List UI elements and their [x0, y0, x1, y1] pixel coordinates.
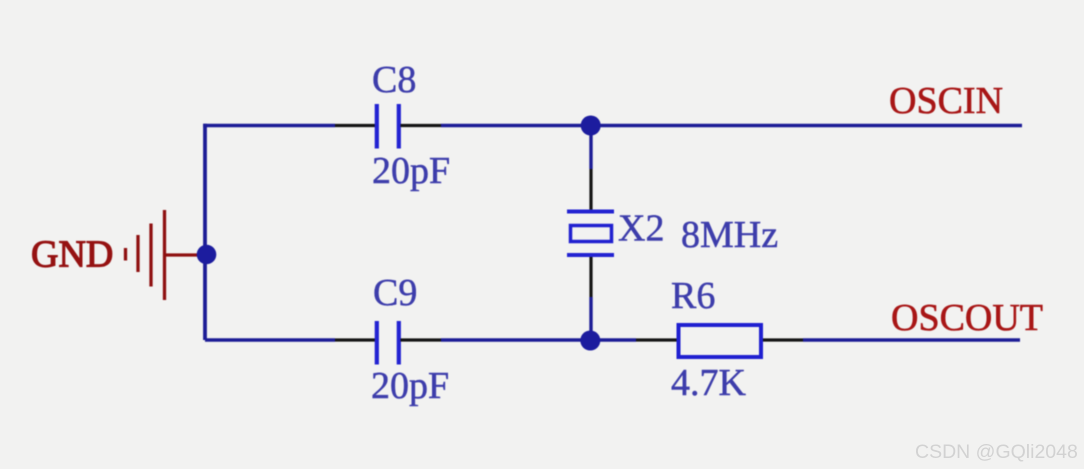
capacitor C8 [377, 104, 399, 149]
svg-text:C8: C8 [372, 59, 416, 101]
svg-text:4.7K: 4.7K [671, 362, 747, 404]
junction GND node [197, 245, 217, 265]
wire bottom net left segment [205, 338, 335, 342]
svg-text:20pF: 20pF [371, 365, 449, 407]
resistor R6 [679, 325, 762, 357]
capacitor C9 [377, 321, 399, 365]
crystal X2 [567, 212, 614, 256]
svg-text:8MHz: 8MHz [681, 214, 778, 256]
wire stub above bottom junction [589, 297, 592, 340]
svg-text:C9: C9 [373, 272, 417, 314]
svg-text:OSCIN: OSCIN [889, 80, 1003, 122]
wire bottom net middle segment [441, 338, 636, 342]
wire R6 right pin [763, 338, 803, 341]
wire bottom net OSCOUT segment [803, 338, 1020, 342]
wire top net OSCIN right segment [441, 124, 1022, 128]
svg-text:R6: R6 [671, 275, 715, 317]
wire C9 right pin [401, 338, 442, 341]
wire C8 left pin [335, 124, 375, 127]
wire C9 left pin [335, 338, 375, 341]
svg-text:X2: X2 [618, 208, 664, 250]
wire crystal top pin [589, 169, 592, 210]
svg-text:CSDN @GQli2048: CSDN @GQli2048 [915, 441, 1078, 463]
ground symbol [126, 210, 199, 300]
svg-text:GND: GND [31, 234, 113, 276]
wire R6 left pin [636, 338, 677, 341]
junction bottom node [580, 331, 600, 351]
wire C8 right pin [401, 124, 442, 127]
wire top net OSCIN left segment [203, 124, 335, 128]
wire left vertical [203, 124, 207, 340]
svg-text:20pF: 20pF [372, 150, 450, 192]
svg-text:OSCOUT: OSCOUT [891, 297, 1043, 339]
wire stub below top junction [589, 126, 592, 170]
wire crystal bottom pin [589, 257, 592, 297]
junction top node [581, 116, 601, 136]
